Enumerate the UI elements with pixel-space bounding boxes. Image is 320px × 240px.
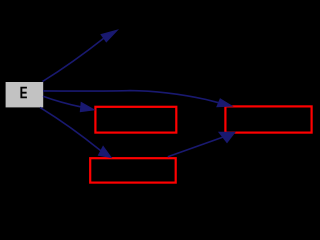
node box middle (red) [95,107,176,133]
edge c: E to middle box [43,96,94,112]
node box right (red) [225,106,311,132]
edge a: E to upper arrow [43,30,118,81]
edge d: E to bottom box [40,107,111,157]
node box bottom (red) [90,158,176,182]
node E (gray box) [6,82,44,107]
edge b: E long curve to right box [43,91,232,107]
edge e: bottom box to right box [168,132,235,157]
